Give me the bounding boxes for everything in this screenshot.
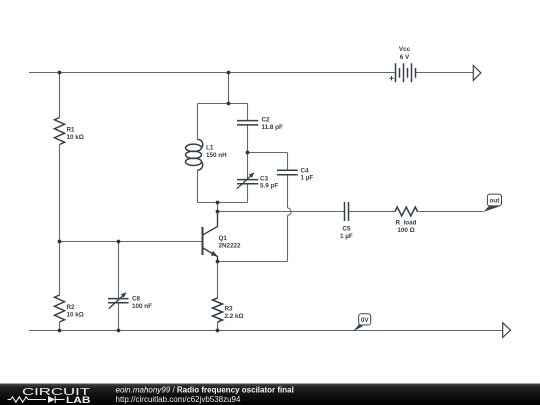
node A between C2 and C3 to C4	[246, 151, 250, 155]
resistor R1	[55, 118, 84, 145]
capacitor C4	[277, 167, 313, 181]
wire C4 down to hop	[287, 175, 289, 208]
svg-text:2N2222: 2N2222	[219, 242, 242, 249]
wire base rail	[60, 241, 202, 243]
junction bottom rail / R3	[216, 329, 220, 333]
wire hop over output wire	[288, 208, 292, 215]
wire R_load to out flag	[417, 211, 484, 213]
capacitor C2	[237, 117, 283, 131]
wire tank left below L1	[197, 170, 199, 203]
wire top rail right segment	[416, 72, 474, 74]
svg-text:LAB: LAB	[66, 395, 91, 405]
svg-text:R_load: R_load	[396, 220, 417, 227]
svg-text:150 nH: 150 nH	[206, 152, 227, 159]
wire R3 to bottom rail	[217, 322, 219, 331]
resistor R2	[55, 295, 84, 322]
node marker triangle bottom right	[503, 323, 511, 338]
wire left vertical R1 to base rail	[59, 145, 61, 242]
node flag out	[484, 194, 502, 212]
wire tank top	[198, 103, 248, 105]
svg-text:http://circuitlab.com/c62jvb53: http://circuitlab.com/c62jvb538zu94	[116, 395, 242, 404]
svg-text:R2: R2	[67, 304, 76, 311]
battery V1 Vcc	[389, 46, 415, 82]
resistor R3	[213, 298, 244, 322]
wire emitter to R3	[217, 262, 219, 299]
wire tank right above C2	[247, 104, 249, 121]
svg-text:R1: R1	[67, 127, 76, 134]
svg-text:C8: C8	[132, 296, 141, 303]
wire stub top rail to tank	[228, 73, 230, 104]
svg-text:10 kΩ: 10 kΩ	[67, 134, 84, 141]
junction bottom rail / C8	[117, 329, 121, 333]
resistor R_load	[395, 207, 418, 234]
footer bar	[0, 384, 540, 405]
svg-text:6 V: 6 V	[400, 54, 410, 61]
wire stub tank bottom to output node	[217, 203, 219, 212]
CircuitLab logo wordmark	[22, 386, 91, 405]
wire left vertical above R1	[59, 73, 61, 118]
svg-text:2.2 kΩ: 2.2 kΩ	[225, 313, 244, 320]
wire bottom rail	[29, 330, 503, 332]
wire C8 branch upper	[118, 242, 120, 299]
wire tank right C2 to C3	[247, 125, 249, 180]
capacitor C5	[340, 202, 353, 240]
wire tank bottom	[198, 202, 248, 204]
wire C8 branch lower	[118, 303, 120, 331]
transistor Q1	[203, 212, 242, 262]
junction tank top	[227, 102, 231, 106]
junction emitter node	[216, 260, 220, 264]
junction base rail / C8 branch	[117, 240, 121, 244]
svg-text:C3: C3	[260, 175, 269, 182]
svg-text:0V: 0V	[361, 317, 370, 324]
junction collector / output	[216, 210, 220, 214]
svg-text:100 nF: 100 nF	[132, 303, 152, 310]
svg-text:100 Ω: 100 Ω	[397, 227, 414, 234]
wire output node to C5	[218, 211, 345, 213]
svg-text:eoin.mahony99 / Radio frequenc: eoin.mahony99 / Radio frequency oscilato…	[116, 386, 294, 395]
wire tank right below C3	[247, 184, 249, 203]
junction top rail / R1 branch	[58, 71, 62, 75]
wire C5 to R_load	[349, 211, 396, 213]
wire node A to C4	[248, 153, 288, 171]
svg-text:C4: C4	[301, 167, 310, 174]
svg-text:5.9 pF: 5.9 pF	[260, 183, 278, 190]
node marker triangle top right	[473, 65, 481, 80]
capacitor C8 (variable)	[108, 292, 152, 310]
svg-text:11.8 pF: 11.8 pF	[262, 124, 284, 131]
svg-text:Q1: Q1	[219, 235, 228, 242]
wire emitter rail	[218, 261, 288, 263]
capacitor C3 (variable)	[237, 172, 279, 189]
wire hop to emitter rail	[287, 215, 289, 261]
svg-text:out: out	[490, 197, 501, 204]
node flag 0V	[353, 314, 370, 332]
svg-text:L1: L1	[206, 145, 214, 152]
wire tank left above L1	[197, 104, 199, 140]
wire left vertical below R2	[59, 322, 61, 331]
wire left vertical base rail to R2	[59, 242, 61, 296]
junction tank bottom	[216, 201, 220, 205]
svg-text:10 kΩ: 10 kΩ	[67, 311, 84, 318]
wire top rail left segment	[29, 72, 396, 74]
inductor L1	[186, 139, 228, 170]
svg-text:1 µF: 1 µF	[301, 175, 314, 182]
junction top rail / tank stub	[227, 71, 231, 75]
svg-text:Vcc: Vcc	[399, 46, 411, 53]
svg-text:C5: C5	[342, 226, 351, 233]
svg-text:R3: R3	[225, 306, 234, 313]
junction bottom rail / R2	[58, 329, 62, 333]
junction base rail / R1-R2 branch	[58, 240, 62, 244]
CircuitLab logo resistor-diode squiggle	[8, 396, 65, 403]
svg-text:C2: C2	[262, 117, 271, 124]
svg-text:1 µF: 1 µF	[340, 233, 353, 240]
